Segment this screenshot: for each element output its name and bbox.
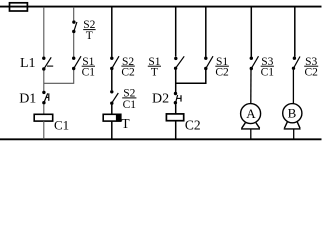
svg-text:C1: C1 xyxy=(82,66,96,78)
svg-text:D1: D1 xyxy=(19,91,36,106)
wire: branch 5 top drop xyxy=(205,7,207,57)
svg-text:C2: C2 xyxy=(215,66,229,78)
coil T (timer, right end filled) xyxy=(103,114,121,122)
contact S2/C1 xyxy=(110,90,118,105)
contact D2 xyxy=(174,92,181,105)
label S2/C2 xyxy=(121,56,135,79)
label S3/C1 xyxy=(261,56,275,79)
bell B xyxy=(283,104,302,129)
wire: branch 1 top drop xyxy=(43,7,45,57)
wire: branch 1 coil to bottom rail xyxy=(43,121,45,139)
wire: branch 2 top drop xyxy=(73,7,75,21)
svg-text:L1: L1 xyxy=(20,56,36,71)
svg-text:T: T xyxy=(86,30,93,42)
label S2/C1 xyxy=(122,88,136,111)
contact S3/C1 xyxy=(250,56,259,70)
contact S2 (upper, timer branch) xyxy=(72,20,77,33)
wire: branch 7 top drop xyxy=(294,7,296,57)
wire: branch 3 into coil T xyxy=(111,105,113,115)
label S1/C2 xyxy=(215,56,229,79)
svg-text:C2: C2 xyxy=(121,66,135,78)
wire: branch 6 into meter A xyxy=(250,70,252,104)
contact S1/C1 xyxy=(72,56,81,70)
svg-text:T: T xyxy=(121,116,130,131)
fuse F1 xyxy=(10,3,28,11)
wire: branch 6 top drop xyxy=(250,7,252,57)
wire: branch 7 into bell B xyxy=(292,70,294,104)
wire: top supply rail xyxy=(0,6,322,8)
wire: branch 1 into coil C1 xyxy=(43,104,45,114)
coil C1 xyxy=(34,114,53,121)
wire: branch 4 middle xyxy=(175,70,177,92)
wire: bottom supply rail xyxy=(0,138,322,140)
wire: branch 3 middle xyxy=(111,70,113,90)
wire: meter A to bottom rail xyxy=(250,130,252,140)
svg-text:B: B xyxy=(288,105,297,120)
svg-text:C1: C1 xyxy=(261,66,275,78)
wire: junction branch5 into branch4 xyxy=(176,70,206,83)
svg-text:C2: C2 xyxy=(185,117,201,132)
wire: branch 4 into coil C2 xyxy=(175,104,177,114)
wire: bell B to bottom rail xyxy=(293,130,295,140)
contact S3/C2 xyxy=(292,57,300,71)
coil C2 xyxy=(166,114,183,121)
wire: branch 2 between contacts xyxy=(73,33,75,57)
svg-text:D2: D2 xyxy=(152,91,169,106)
ammeter A xyxy=(241,104,261,129)
label S3/C2 xyxy=(304,56,318,79)
wire: branch 1 between L1 and D1 xyxy=(43,71,45,92)
label S1/C1 xyxy=(82,56,96,79)
svg-text:A: A xyxy=(246,106,256,121)
svg-text:C2: C2 xyxy=(304,66,318,78)
svg-text:C1: C1 xyxy=(123,99,137,111)
contact S2/C2 xyxy=(110,56,119,70)
wire: branch 3 coil to bottom rail xyxy=(111,121,113,139)
label S2/T xyxy=(83,19,95,42)
wire: branch 4 coil to bottom rail xyxy=(175,121,177,140)
contact L1 xyxy=(42,57,53,71)
wire: branch 3 top drop xyxy=(111,7,113,57)
contact D1 xyxy=(42,91,49,105)
contact S1/C2 xyxy=(204,56,213,70)
svg-text:T: T xyxy=(151,66,158,78)
wire: branch 4 top drop xyxy=(175,7,177,57)
wire: junction branch2 into branch1 xyxy=(44,70,74,83)
contact S1 (timer branch) xyxy=(174,56,184,70)
label S1/T xyxy=(148,56,161,79)
svg-text:C1: C1 xyxy=(54,117,69,132)
